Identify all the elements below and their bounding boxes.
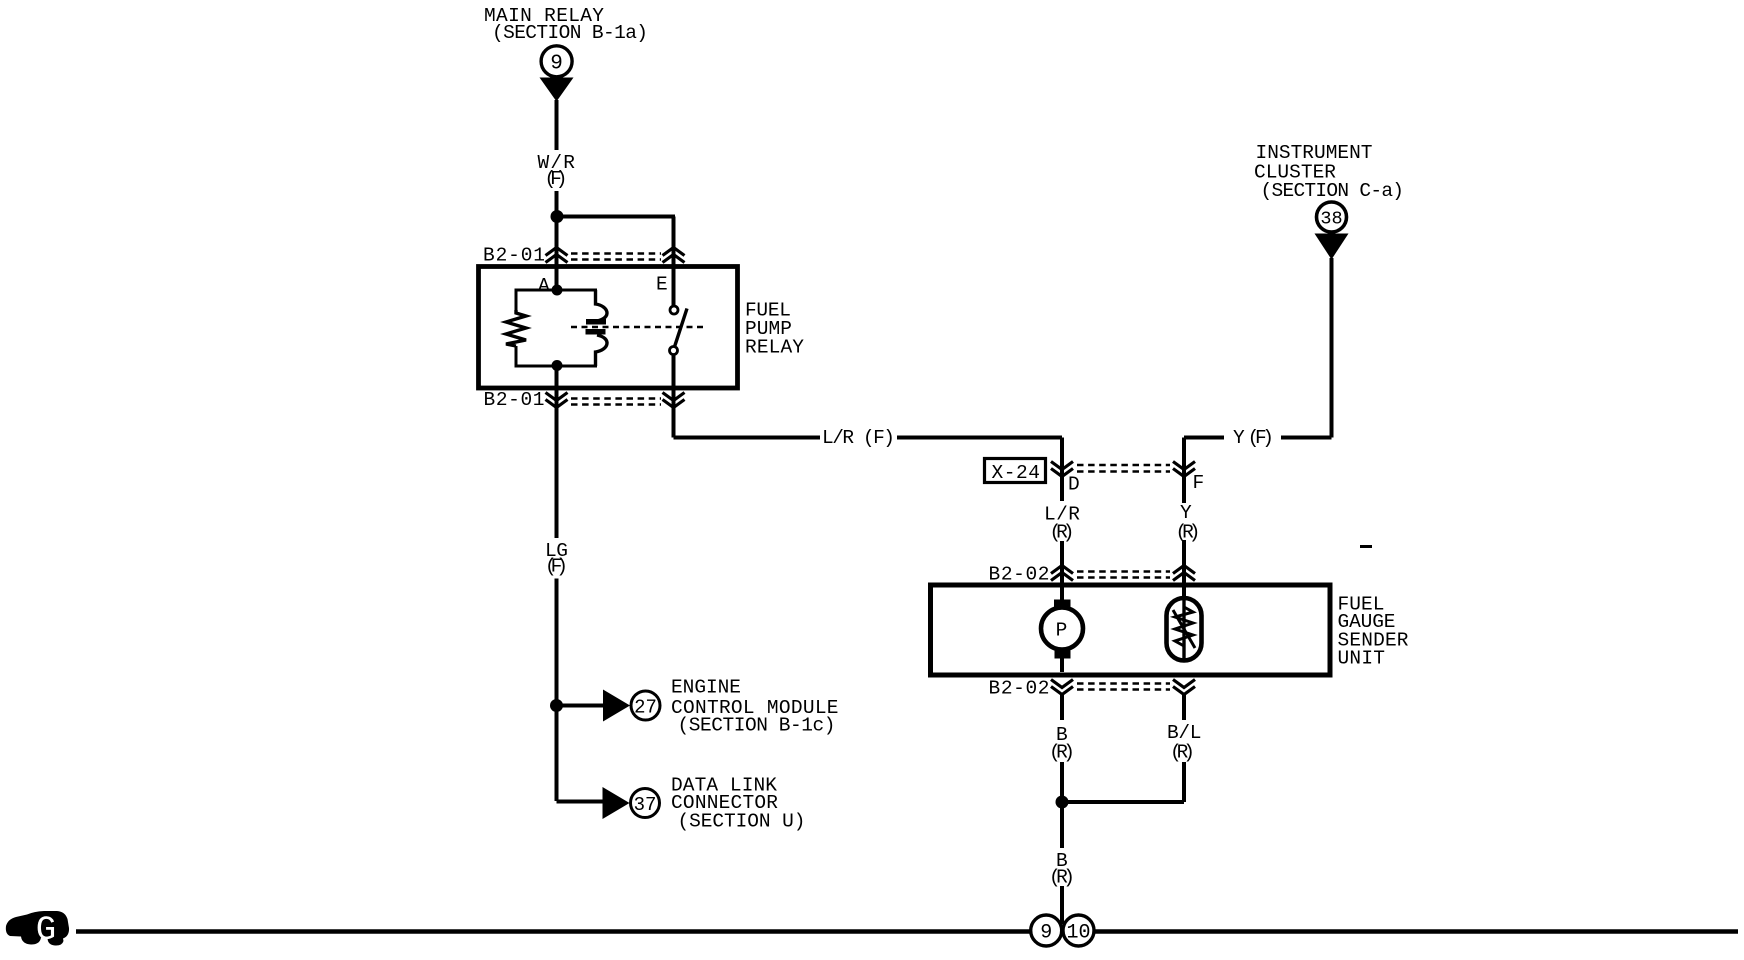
svg-text:Y (F): Y (F) — [1233, 427, 1274, 449]
svg-text:E: E — [656, 274, 668, 296]
svg-text:(R): (R) — [1049, 867, 1075, 889]
svg-text:A: A — [538, 275, 550, 297]
svg-text:(SECTION U): (SECTION U) — [678, 811, 806, 833]
svg-text:27: 27 — [634, 697, 657, 719]
svg-text:B2-02: B2-02 — [989, 564, 1050, 586]
svg-text:B2-01: B2-01 — [484, 389, 545, 411]
svg-text:(F): (F) — [545, 168, 568, 190]
svg-text:37: 37 — [634, 794, 657, 816]
svg-text:(R): (R) — [1176, 522, 1201, 544]
svg-text:(R): (R) — [1050, 522, 1075, 544]
svg-text:9: 9 — [1040, 922, 1052, 945]
svg-text:L/R (F): L/R (F) — [822, 427, 895, 449]
svg-text:F: F — [1193, 472, 1205, 494]
svg-text:(F): (F) — [545, 556, 568, 578]
svg-text:38: 38 — [1320, 209, 1342, 230]
svg-text:RELAY: RELAY — [745, 337, 804, 359]
svg-text:10: 10 — [1066, 922, 1090, 945]
svg-text:UNIT: UNIT — [1338, 648, 1386, 670]
svg-text:(SECTION B-1c): (SECTION B-1c) — [678, 715, 836, 737]
svg-text:B2-02: B2-02 — [989, 678, 1050, 700]
svg-text:B2-01: B2-01 — [483, 245, 545, 267]
svg-text:G: G — [36, 912, 56, 950]
svg-text:9: 9 — [550, 53, 563, 76]
svg-text:(R): (R) — [1170, 742, 1195, 764]
svg-text:D: D — [1068, 474, 1080, 496]
svg-text:P: P — [1056, 620, 1068, 642]
svg-text:(SECTION C-a): (SECTION C-a) — [1261, 180, 1405, 202]
svg-text:ENGINE: ENGINE — [671, 677, 741, 699]
svg-text:(R): (R) — [1049, 742, 1075, 764]
svg-text:X-24: X-24 — [992, 462, 1041, 484]
svg-text:(SECTION B-1a): (SECTION B-1a) — [492, 22, 648, 44]
